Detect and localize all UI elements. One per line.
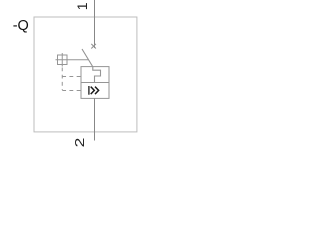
svg-text:2: 2 <box>74 138 88 148</box>
svg-text:-Q: -Q <box>13 18 29 34</box>
svg-text:1: 1 <box>74 2 90 10</box>
